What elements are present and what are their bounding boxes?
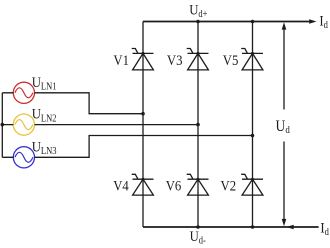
node top rail leg B [196, 20, 200, 24]
thyristor V5 [241, 49, 263, 70]
node top rail leg C [251, 20, 255, 24]
label Ud- [190, 229, 206, 246]
thyristor V3 [187, 49, 209, 70]
svg-text:Id: Id [320, 221, 329, 238]
thyristor V1 [132, 49, 154, 70]
wire phase 1 [2, 93, 143, 114]
label V4 [113, 179, 129, 195]
wire leg B [197, 22, 199, 228]
node bottom rail leg C [251, 225, 255, 229]
ac source ULN3 [13, 147, 34, 168]
node bottom rail leg B [196, 225, 200, 229]
label ULN3 [32, 140, 57, 158]
wire phase 2 [2, 124, 198, 126]
label V6 [166, 179, 182, 195]
node neutral junction [1, 123, 5, 127]
label V2 [221, 179, 237, 195]
label ULN2 [32, 107, 57, 125]
wire negative rail Ud- with Id return arrow [143, 225, 319, 230]
label Id top [319, 14, 328, 31]
ac source ULN1 [13, 82, 34, 103]
wire neutral bus [1, 93, 3, 158]
svg-text:ULN1: ULN1 [32, 75, 57, 93]
svg-text:V6: V6 [166, 179, 182, 195]
node phase2 to leg B [196, 123, 200, 127]
svg-text:Ud: Ud [276, 118, 290, 137]
label V3 [167, 53, 183, 69]
label V5 [223, 53, 239, 69]
svg-text:V3: V3 [167, 53, 183, 69]
node phase3 to leg C [251, 134, 255, 138]
label Ud+ [189, 3, 207, 20]
svg-text:V5: V5 [223, 53, 239, 69]
svg-text:V1: V1 [113, 53, 129, 69]
label Id bottom [320, 221, 329, 238]
node phase1 to leg A [141, 112, 145, 116]
wire phase 3 [2, 136, 252, 158]
svg-text:ULN2: ULN2 [32, 107, 57, 125]
label ULN1 [32, 75, 57, 93]
wire leg A [142, 22, 144, 228]
label Ud [276, 118, 290, 137]
thyristor V6 [187, 174, 209, 195]
ac source ULN2 [13, 114, 34, 135]
wire positive rail Ud+ with Id arrow [143, 19, 317, 24]
label V1 [113, 53, 129, 69]
svg-text:V4: V4 [113, 179, 129, 195]
svg-text:V2: V2 [221, 179, 237, 195]
measurement Ud arrow line [282, 22, 287, 226]
svg-text:ULN3: ULN3 [32, 140, 57, 158]
thyristor V2 [241, 174, 263, 195]
svg-text:Ud+: Ud+ [189, 3, 207, 20]
svg-text:Ud-: Ud- [190, 229, 206, 246]
svg-text:Id: Id [319, 14, 328, 31]
thyristor V4 [132, 174, 154, 195]
wire leg C [252, 22, 254, 228]
